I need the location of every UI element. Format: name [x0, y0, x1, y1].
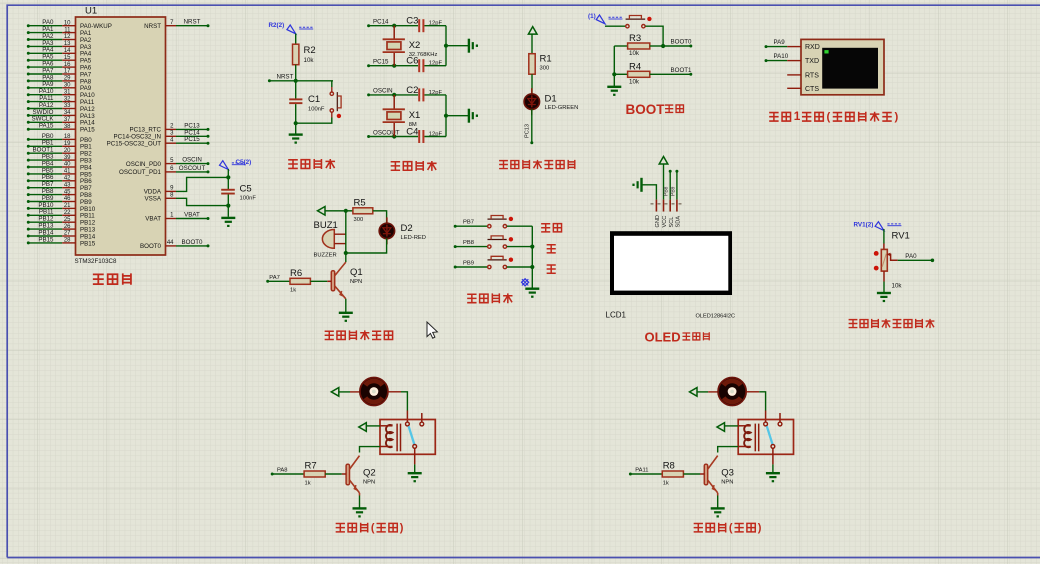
svg-text:Q2: Q2 [363, 468, 376, 479]
pin VSSA (8) wire loop [166, 197, 177, 199]
svg-text:C1: C1 [308, 94, 320, 105]
wire to base [325, 473, 342, 475]
wire SDA stub [675, 170, 678, 173]
wire PB7 button to bus [507, 225, 532, 227]
wire D2 to node [346, 238, 387, 253]
svg-text:12pF: 12pF [429, 61, 443, 67]
svg-text:U1: U1 [85, 6, 97, 17]
svg-text:11: 11 [64, 27, 71, 33]
wire BOOT1 [650, 73, 691, 75]
resistor R3 [614, 45, 627, 47]
svg-text:28: 28 [64, 238, 71, 244]
svg-text:NPN: NPN [350, 279, 362, 285]
ground X2 [468, 39, 470, 53]
svg-text:PC15: PC15 [184, 136, 200, 143]
wire motor to relay [388, 391, 401, 393]
pin PB14 (27) wire [27, 235, 30, 238]
svg-text:41: 41 [64, 169, 71, 175]
svg-text:20: 20 [64, 148, 71, 154]
label 加 (increase) [547, 245, 556, 253]
wire emitter to ground [345, 299, 347, 312]
wire to base [683, 473, 700, 475]
svg-text:26: 26 [64, 224, 71, 230]
svg-text:X2: X2 [409, 40, 421, 51]
svg-text:R4: R4 [629, 61, 641, 72]
buzzer pins [334, 233, 346, 235]
wire R1 to D1 [531, 74, 533, 94]
wire RV1 bottom [883, 282, 885, 293]
svg-text:R2(2): R2(2) [269, 22, 285, 29]
ground below C5 [221, 217, 235, 219]
label 主芯片 (main chip title) [93, 274, 104, 284]
relay terminal NC [421, 413, 423, 422]
svg-text:GND: GND [655, 215, 661, 227]
label 复位电路 (reset circuit title) [288, 160, 298, 169]
svg-text:1k: 1k [305, 480, 311, 486]
power symbol coil [717, 423, 725, 432]
svg-text:32.768KHz: 32.768KHz [409, 52, 438, 58]
wire right vertical X1 [445, 95, 447, 137]
wire PB9 to button [454, 266, 457, 269]
pin PB0 (18) wire [27, 138, 30, 141]
wire R2 to NRST node [295, 65, 297, 81]
svg-text:10: 10 [64, 20, 71, 26]
svg-text:CTS: CTS [805, 86, 819, 93]
svg-text:NRST: NRST [184, 19, 201, 26]
svg-text:NRST: NRST [144, 23, 161, 30]
power symbol OLED [659, 157, 668, 165]
terminal pin CTS [787, 87, 801, 89]
ground relay contact [766, 472, 780, 474]
svg-text:300: 300 [354, 217, 364, 223]
svg-text:R7: R7 [305, 461, 317, 472]
wire PA8 to R7 [271, 473, 274, 476]
wire vertical alarm bus [345, 211, 347, 262]
potentiometer RV1 [881, 249, 887, 271]
relay box [380, 420, 435, 455]
relay coil [386, 425, 393, 447]
ground OLED (rotated) [640, 178, 642, 192]
svg-text:40: 40 [64, 162, 71, 168]
svg-text:300: 300 [540, 66, 550, 72]
svg-text:X1: X1 [409, 110, 421, 121]
ground Q2 [353, 507, 367, 509]
pin PB5 (41) wire [27, 172, 30, 175]
resistor R5 [346, 210, 353, 212]
svg-text:RTS: RTS [805, 72, 819, 79]
pin PB8 (45) wire [27, 193, 30, 196]
pin PA5 (15) wire [27, 59, 30, 62]
label 独立按键 (independent keys title) [467, 294, 476, 302]
svg-text:14: 14 [64, 48, 71, 54]
relay contact NO [413, 445, 417, 449]
wire to motor [697, 391, 708, 393]
svg-text:D2: D2 [401, 223, 413, 234]
wire C1 bottom [295, 104, 297, 134]
wire BOOT0 [663, 45, 691, 47]
svg-text:): ) [758, 522, 762, 534]
svg-text:OLED: OLED [645, 330, 681, 345]
wire button to BOOT0 node [645, 26, 663, 46]
svg-text:PA9: PA9 [774, 39, 786, 46]
svg-text:PA10: PA10 [774, 53, 789, 60]
node junction R5/BUZ [344, 209, 348, 213]
MCU U1 STM32F103C8 body [76, 17, 166, 255]
capacitor C4 [418, 130, 420, 143]
pin PB1 (19) wire [27, 145, 30, 148]
wire contact to ground [414, 448, 416, 464]
svg-text:C5: C5 [240, 184, 252, 195]
crystal X2 [393, 26, 395, 40]
wire to R1 [531, 34, 533, 54]
svg-text:OSCOUT_PD1: OSCOUT_PD1 [119, 169, 162, 176]
svg-text:17: 17 [64, 69, 71, 75]
svg-text:PB8: PB8 [664, 186, 670, 196]
pin PA2 (12) wire [27, 38, 30, 41]
svg-text:46: 46 [64, 196, 71, 202]
svg-text:BOOT1: BOOT1 [671, 67, 693, 74]
svg-text:PA15: PA15 [39, 123, 54, 130]
svg-text:13: 13 [64, 41, 71, 47]
pin PA13 (34) wire [27, 114, 30, 117]
svg-text:44: 44 [167, 240, 174, 246]
svg-text:R1: R1 [540, 54, 552, 65]
wire PB9 button to bus [507, 266, 532, 268]
label 晶振电路 (crystal circuit title) [391, 162, 400, 170]
node PC13 end [530, 141, 533, 144]
wire button bus vertical [531, 226, 533, 288]
off-page connector R2(2) [287, 25, 296, 34]
origin marker [522, 279, 529, 286]
label 继电器(净化) (relay purify title) [694, 524, 703, 532]
svg-text:39: 39 [64, 155, 71, 161]
svg-text:25: 25 [64, 217, 71, 223]
pin NRST (7) [166, 25, 177, 27]
pin PB6 (42) wire [27, 179, 30, 182]
svg-text:PC13: PC13 [525, 124, 531, 138]
svg-text:15: 15 [64, 55, 71, 61]
relay coil [744, 425, 751, 447]
wire coil bottom to collector [738, 446, 751, 448]
svg-text:Q1: Q1 [350, 267, 363, 278]
svg-text:BOOT0: BOOT0 [182, 239, 204, 246]
label 程序运行指示灯 (run indicator title) [499, 161, 508, 169]
svg-text:RV1: RV1 [892, 231, 910, 242]
pin VBAT (1) [166, 218, 177, 220]
LED D1 [531, 88, 533, 96]
capacitor C6 [418, 59, 420, 72]
pin PA14 (37) wire [27, 121, 30, 124]
wire RV1 top [883, 229, 885, 244]
svg-text:10k: 10k [629, 78, 640, 85]
svg-text:29: 29 [64, 76, 71, 82]
pin PB15 (28) wire [27, 241, 30, 244]
node junction OSCOUT/crystal [392, 134, 396, 138]
svg-text:NRST: NRST [277, 73, 294, 80]
wire PC14 row [367, 24, 370, 27]
wire R5 to D2 [373, 211, 387, 224]
label 声光报警电路 (alarm circuit title) [325, 331, 334, 339]
wire D1 to PC13 [531, 109, 533, 143]
pin PB2 (20) wire [27, 152, 30, 155]
pin PB11 (22) wire [27, 214, 30, 217]
transistor Q3 [704, 464, 707, 485]
motor [718, 378, 746, 406]
svg-text:OSCOUT: OSCOUT [179, 165, 206, 172]
node junction bus PB9 [530, 265, 534, 269]
capacitor C5 [221, 189, 235, 191]
pin PA12 (33) wire [27, 107, 30, 110]
wire PB7 to button [454, 225, 457, 228]
svg-text:PC15: PC15 [373, 59, 389, 66]
push button PB7 [488, 225, 491, 228]
terminal screen [822, 48, 878, 89]
relay common contact [764, 422, 768, 426]
svg-text:12pF: 12pF [429, 132, 443, 138]
transistor Q1 [331, 271, 334, 291]
power symbol motor Q3 [690, 388, 698, 397]
pin PB13 (26) wire [27, 228, 30, 231]
virtual terminal body [801, 39, 884, 94]
resistor R8 [662, 471, 683, 477]
node junction VDDA/C5 [226, 175, 230, 179]
node junction VSSA/C5 [226, 204, 230, 208]
svg-text:PC14: PC14 [373, 19, 389, 26]
pin PA11 (32) wire [27, 100, 30, 103]
wire to ground X1 [446, 115, 469, 117]
svg-text:42: 42 [64, 176, 71, 182]
terminal pin RTS [787, 74, 801, 76]
wire PC15 row [367, 64, 370, 67]
pin PB10 (21) wire [27, 207, 30, 210]
svg-text:38: 38 [64, 124, 71, 130]
capacitor C3 [418, 19, 420, 32]
ground reset [289, 133, 303, 135]
svg-text:BOOT0: BOOT0 [671, 39, 693, 46]
svg-text:PB15: PB15 [80, 240, 96, 247]
pin PC14-OSC32_IN (3) [166, 135, 177, 137]
svg-text:Q3: Q3 [721, 468, 734, 479]
svg-text:LCD1: LCD1 [606, 311, 627, 320]
svg-text:D1: D1 [545, 94, 557, 105]
svg-text:VSSA: VSSA [144, 196, 161, 203]
OLED pin stubs [655, 200, 657, 212]
svg-text:C5(2): C5(2) [236, 159, 252, 166]
wire to R5 node [325, 210, 346, 212]
pin OSCIN_PD0 (5) [166, 163, 177, 165]
wire PA9 to RXD [765, 45, 768, 48]
capacitor C2 [418, 88, 420, 101]
ground BOOT [607, 86, 621, 88]
power symbol indicator [528, 27, 537, 34]
wire coil top [725, 425, 739, 427]
wire C5 top [227, 169, 229, 190]
node junction PC14/crystal [392, 24, 396, 28]
wire coil top [366, 425, 380, 427]
wire OSCOUT row [367, 135, 370, 138]
svg-text:PA7: PA7 [269, 275, 280, 281]
svg-text:37: 37 [64, 117, 71, 123]
crystal X1 [393, 95, 395, 109]
relay terminal NC [779, 413, 781, 422]
LED D2 [386, 217, 388, 225]
svg-text:PA0: PA0 [905, 253, 917, 260]
wire to BOOT button [605, 25, 626, 27]
svg-text:32: 32 [64, 96, 71, 102]
svg-text:R3: R3 [629, 33, 641, 44]
relay common contact [406, 422, 410, 426]
resistor R4 [614, 73, 627, 75]
svg-text:21: 21 [64, 203, 71, 209]
svg-text:34: 34 [64, 110, 71, 116]
svg-text:LED-RED: LED-RED [401, 235, 426, 241]
pin PC15-OSC32_OUT (4) [166, 142, 177, 144]
node junction OSCIN/crystal [392, 93, 396, 97]
wire VCC column [663, 164, 665, 200]
svg-text:RV1(2): RV1(2) [854, 222, 874, 229]
svg-text:45: 45 [64, 189, 71, 195]
wire PA11 to R8 [629, 473, 632, 476]
svg-text:PA8: PA8 [277, 468, 288, 474]
resistor R2 [293, 44, 299, 64]
ground alarm [339, 312, 353, 314]
svg-text:PB15: PB15 [38, 236, 54, 243]
svg-text:PC15-OSC32_OUT: PC15-OSC32_OUT [107, 140, 162, 147]
svg-text:22: 22 [64, 210, 71, 216]
svg-text:PA11: PA11 [635, 468, 648, 474]
relay blade [409, 426, 415, 444]
svg-text:19: 19 [64, 141, 71, 147]
pin PA9 (30) wire [27, 86, 30, 89]
power symbol alarm [318, 207, 326, 216]
mouse cursor [427, 322, 437, 338]
wire PB8 button to bus [507, 246, 532, 248]
pin PC13_RTC (2) [166, 128, 177, 130]
pin PA0-WKUP (10) wire [27, 24, 30, 27]
wire right vertical X2 [445, 26, 447, 66]
svg-text:18: 18 [64, 134, 71, 140]
svg-text:R8: R8 [663, 461, 675, 472]
svg-text:100nF: 100nF [308, 107, 325, 113]
svg-text:BUZZER: BUZZER [314, 253, 337, 259]
pin PA4 (14) wire [27, 52, 30, 55]
label 继电器(通风) (relay fan title) [336, 524, 345, 532]
wire OSCIN row [367, 93, 370, 96]
svg-text:1k: 1k [290, 287, 296, 293]
ground RV1 [877, 292, 891, 294]
pin PA10 (31) wire [27, 93, 30, 96]
svg-text:BOOT0: BOOT0 [140, 243, 162, 250]
svg-text:PB7: PB7 [463, 220, 474, 226]
ground relay contact [408, 472, 422, 474]
wire to motor [339, 391, 350, 393]
svg-text:31: 31 [64, 89, 71, 95]
wire SCL stub [669, 170, 672, 173]
push button PB8 [488, 245, 491, 248]
svg-text:R2: R2 [304, 45, 316, 56]
svg-text:NPN: NPN [721, 480, 733, 486]
wire PB8 to button [454, 245, 457, 248]
relay blade [767, 426, 773, 444]
pin PB12 (25) wire [27, 221, 30, 224]
wire left bus R3-R4 [613, 46, 615, 86]
capacitor C1 [295, 81, 297, 99]
svg-text:LED-GREEN: LED-GREEN [545, 105, 579, 111]
node junction C1/button [294, 121, 298, 125]
svg-text:NPN: NPN [363, 480, 375, 486]
label 设置 (set) [541, 224, 550, 232]
node junction R4 [612, 72, 616, 76]
terminal pin TXD [787, 60, 801, 62]
svg-text:16: 16 [64, 62, 71, 68]
svg-text:OSCIN: OSCIN [182, 157, 202, 164]
svg-text:): ) [400, 522, 404, 534]
resistor R1 [529, 54, 535, 74]
node junction gnd X1 [444, 114, 448, 118]
svg-text:10k: 10k [892, 283, 903, 290]
svg-text:1: 1 [794, 109, 801, 123]
node junction gnd X2 [444, 44, 448, 48]
svg-text:(: ( [827, 111, 831, 123]
svg-text:OSCIN: OSCIN [373, 88, 393, 95]
svg-text:27: 27 [64, 231, 71, 237]
ground X1 [468, 109, 470, 123]
wire PA7 to R6 [266, 280, 269, 283]
label 串口1窗口（模拟手机端） (serial window title) [769, 113, 778, 121]
wire R2 top [295, 34, 297, 45]
svg-text:8M: 8M [409, 122, 417, 128]
OLED display LCD1 [610, 231, 732, 295]
pin PA3 (13) wire [27, 45, 30, 48]
off-page connector RV1(2) [875, 222, 884, 231]
power symbol motor Q2 [331, 388, 339, 397]
transistor Q2 [346, 464, 349, 485]
pin VDDA (9) wire loop [166, 190, 177, 192]
off-page connector (1) [596, 15, 605, 24]
ground Q3 [711, 507, 725, 509]
wire motor to relay [746, 391, 759, 393]
svg-text:OSCIN_PD0: OSCIN_PD0 [126, 161, 162, 168]
wire PA10 to TXD [765, 59, 768, 62]
svg-text:12pF: 12pF [429, 21, 443, 27]
ground buttons [525, 288, 539, 290]
svg-text:12pF: 12pF [429, 90, 443, 96]
svg-text:SDA: SDA [676, 216, 682, 228]
node junction bus PB8 [530, 245, 534, 249]
node junction PC15/crystal [392, 64, 396, 68]
node junction NRST/C1 [294, 79, 298, 83]
svg-text:C3: C3 [406, 16, 418, 27]
terminal pin RXD [787, 46, 801, 48]
svg-text:33: 33 [64, 103, 71, 109]
svg-text:SCL: SCL [669, 217, 675, 228]
svg-text:43: 43 [64, 182, 71, 188]
pin PA1 (11) wire [27, 31, 30, 34]
svg-text:30: 30 [64, 83, 71, 89]
node junction D2/collector [344, 251, 348, 255]
pin PB4 (40) wire [27, 166, 30, 169]
svg-text:(1): (1) [588, 13, 596, 20]
pin OSCOUT_PD1 (6) [166, 171, 177, 173]
svg-text:10k: 10k [304, 57, 315, 64]
svg-text:PB8: PB8 [463, 240, 474, 246]
wiper wire PA0 [887, 254, 897, 260]
relay contact NO [771, 445, 775, 449]
svg-text:VBAT: VBAT [184, 212, 200, 219]
wire emitter down [717, 493, 719, 496]
svg-text:PB9: PB9 [671, 186, 677, 196]
svg-text:TXD: TXD [805, 58, 819, 65]
